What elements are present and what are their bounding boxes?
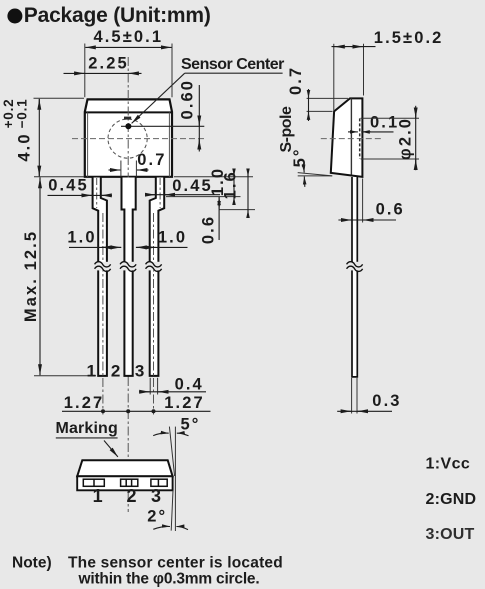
svg-text:4.0: 4.0 [16, 132, 34, 161]
svg-text:−0.1: −0.1 [15, 99, 30, 129]
2 deg draft line bottom view [147, 490, 188, 530]
svg-text:+0.2: +0.2 [1, 99, 16, 129]
svg-text:0.3: 0.3 [372, 392, 401, 410]
break marks lead 1 [95, 262, 111, 272]
dim 1.0 left gap [67, 229, 121, 248]
svg-text:0.7: 0.7 [287, 66, 305, 95]
svg-text:1.27: 1.27 [64, 394, 105, 412]
dim 1.6 vertical (center lead shoulder) [222, 169, 249, 218]
lead 1 (left) [93, 178, 107, 376]
sensor chip hidden line [359, 118, 361, 158]
dim 0.6 vertical (between shoulders) [200, 197, 220, 245]
dim 4.5±0.1 [85, 28, 172, 97]
dim 0.60 [179, 79, 200, 152]
svg-text:1.0: 1.0 [67, 229, 96, 247]
dim 0.3 lead thickness [337, 378, 401, 414]
label S-pole [278, 106, 295, 152]
dim 1.0 vertical (lead shoulder) [209, 167, 234, 204]
svg-text:0.6: 0.6 [376, 200, 405, 218]
break marks lead 3 [146, 262, 162, 272]
svg-text:3: 3 [135, 361, 144, 380]
svg-text:4.5±0.1: 4.5±0.1 [93, 28, 163, 46]
dim 0.45 right [145, 177, 220, 195]
sensor circle dashed [108, 119, 147, 158]
svg-text:0.45: 0.45 [48, 177, 89, 195]
break marks side lead [347, 262, 363, 272]
package body front view [85, 99, 172, 176]
dim 1.0 right gap [136, 229, 188, 248]
dim phi 2.0 [361, 106, 419, 170]
svg-text:5°: 5° [291, 147, 309, 167]
package body side view [331, 98, 363, 176]
svg-text:5°: 5° [181, 416, 201, 434]
svg-text:3: 3 [151, 486, 161, 506]
svg-text:Note): Note) [12, 554, 52, 571]
svg-text:0.1: 0.1 [370, 114, 399, 132]
bottom view top face [77, 460, 172, 476]
svg-text:Package (Unit:mm): Package (Unit:mm) [24, 4, 211, 27]
vertical centerline front view [127, 57, 129, 377]
svg-text:1.6: 1.6 [222, 170, 240, 199]
inner edge line right [168, 112, 170, 176]
svg-text:1.0: 1.0 [158, 229, 187, 247]
title bullet [7, 9, 22, 24]
svg-text:1: 1 [86, 361, 95, 380]
dim 0.4 lead width [139, 375, 206, 394]
dim 0.1 chip offset [348, 114, 399, 132]
svg-text:0.4: 0.4 [175, 375, 204, 393]
inner edge line left [87, 112, 89, 176]
dim 1.27 pitch [62, 394, 211, 413]
lead centerlines lower [102, 213, 104, 415]
svg-text:0.60: 0.60 [179, 79, 197, 120]
svg-text:0.6: 0.6 [200, 215, 218, 244]
side inner line [350, 98, 352, 174]
dim 0.7 center lead width at package [109, 151, 167, 177]
side lead [352, 177, 357, 377]
dim 0.6 side lead [338, 179, 404, 223]
svg-text:1:Vcc: 1:Vcc [426, 455, 471, 472]
sensor center dot [125, 123, 131, 129]
lead centerlines upper [96, 178, 98, 208]
dim 1.5±0.2 [332, 29, 444, 111]
svg-text:S-pole: S-pole [278, 106, 295, 152]
svg-text:2.25: 2.25 [88, 55, 129, 73]
svg-text:2: 2 [111, 361, 120, 380]
svg-text:Max. 12.5: Max. 12.5 [22, 230, 40, 322]
svg-text:1.5±0.2: 1.5±0.2 [374, 29, 444, 47]
pin 1 section [83, 479, 104, 486]
svg-text:Marking: Marking [56, 420, 118, 437]
svg-text:2°: 2° [147, 508, 167, 526]
lead 3 (right) [150, 178, 165, 376]
extension lines right of package for 1.0 / 1.6 / 0.6 [174, 176, 253, 178]
label Marking with leader [56, 420, 118, 457]
svg-text:1.27: 1.27 [164, 394, 205, 412]
svg-text:2:GND: 2:GND [426, 491, 477, 508]
marking bar on package face [124, 117, 131, 120]
dim 2.25 [64, 55, 142, 74]
svg-text:1: 1 [93, 486, 103, 506]
dim 4.0 +0.2 -0.1 [1, 98, 84, 176]
dim 5 deg side bottom [291, 147, 332, 186]
svg-text:3:OUT: 3:OUT [426, 526, 475, 543]
5 deg draft lines bottom view [153, 416, 200, 532]
sensor center line [121, 125, 204, 127]
leader Sensor Center [185, 72, 283, 74]
side centerline dashed [321, 138, 381, 140]
horizontal centerline front view [72, 138, 204, 140]
centerline through bottom view [127, 377, 129, 512]
svg-text:0.45: 0.45 [172, 177, 213, 195]
lead 2 (center) [122, 178, 136, 376]
svg-text:φ2.0: φ2.0 [396, 117, 414, 160]
chamfer line [85, 111, 172, 113]
dim Max. 12.5 [22, 177, 96, 376]
dim 0.7 chamfer side [287, 66, 348, 121]
pin 2 section [121, 479, 138, 486]
dim 0.45 left [48, 177, 113, 196]
svg-text:within the φ0.3mm circle.: within the φ0.3mm circle. [78, 571, 260, 588]
pin 3 section [151, 479, 167, 486]
svg-text:Sensor Center: Sensor Center [181, 56, 284, 73]
bottom view front face [77, 476, 172, 490]
break marks lead 2 [120, 262, 136, 272]
svg-text:0.7: 0.7 [137, 151, 166, 169]
svg-text:2: 2 [126, 486, 136, 506]
svg-text:The sensor center is located: The sensor center is located [68, 554, 283, 571]
